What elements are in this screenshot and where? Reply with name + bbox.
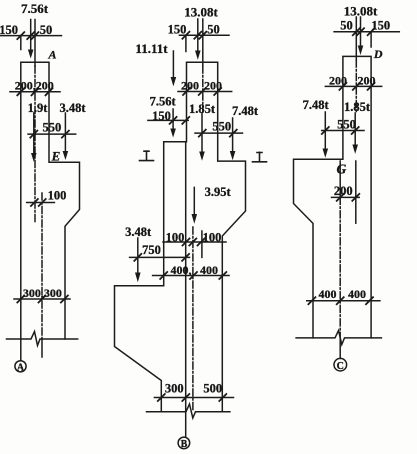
svg-text:3.95t: 3.95t: [205, 185, 232, 199]
svg-text:13.08t: 13.08t: [344, 3, 378, 18]
axis extension to bubble A: [20, 339, 22, 361]
svg-text:300,300: 300,300: [23, 286, 62, 300]
svg-text:500: 500: [203, 381, 222, 395]
crane load arrow 1.9t column A: [31, 113, 37, 162]
svg-text:200: 200: [358, 73, 376, 87]
svg-text:50: 50: [207, 23, 220, 37]
column C lower centerline: [339, 161, 341, 358]
svg-text:200: 200: [204, 78, 222, 92]
svg-text:B: B: [181, 439, 188, 450]
load arrow 3.95t: [192, 187, 198, 223]
load arrow 13.08t column B: [195, 19, 201, 60]
svg-text:150: 150: [168, 23, 187, 37]
break line column C: [296, 331, 381, 345]
svg-text:400: 400: [319, 287, 337, 301]
column B lower centerline: [192, 227, 194, 411]
svg-text:1.85t: 1.85t: [344, 100, 371, 114]
dimension line 200,200 column B: [178, 88, 232, 95]
dimension line 150/50 column A: [0, 32, 62, 49]
load arrow 7.56t column B: [170, 109, 176, 138]
dimension line 550 column C: [322, 127, 364, 134]
crane arrow 1.85t column B: [199, 113, 205, 161]
column C outline: [294, 56, 372, 338]
svg-text:7.48t: 7.48t: [303, 98, 330, 112]
dimension line 150/50 column B: [179, 32, 229, 52]
svg-text:C: C: [337, 361, 344, 372]
column B upper centerline: [201, 19, 204, 257]
svg-text:11.11t: 11.11t: [135, 41, 168, 56]
load arrow 3.48t column B: [135, 238, 141, 282]
dimension line 100,100 column B: [163, 239, 226, 246]
dimension line 200,200 column A: [10, 88, 60, 95]
dimension line 550 column A: [28, 131, 76, 138]
svg-text:300: 300: [165, 381, 184, 395]
dimension line 300,300 column A: [14, 296, 70, 303]
dimension line 200,200 column C: [325, 83, 381, 90]
dimension line 750: [130, 254, 190, 261]
svg-text:50: 50: [340, 18, 353, 32]
column B axis line: [185, 142, 187, 437]
svg-text:150: 150: [152, 109, 171, 123]
svg-text:100: 100: [203, 230, 222, 244]
crane arrow 7.48t column B: [230, 118, 236, 160]
column A outline: [21, 62, 80, 339]
svg-text:7.56t: 7.56t: [150, 94, 177, 108]
svg-text:200: 200: [334, 184, 353, 198]
svg-text:200: 200: [329, 73, 347, 87]
svg-text:150: 150: [371, 18, 390, 32]
svg-text:400: 400: [200, 263, 218, 277]
svg-text:550: 550: [212, 119, 231, 133]
axis bubble B: [178, 437, 190, 449]
dimension line 50/150 column C: [334, 28, 399, 47]
svg-text:400,: 400,: [171, 263, 192, 277]
svg-text:1.85t: 1.85t: [189, 102, 216, 116]
column B outline: [115, 62, 246, 412]
column A lower centerline: [41, 193, 43, 357]
crane arrow 1.85t column C: [352, 113, 358, 154]
svg-text:13.08t: 13.08t: [184, 4, 218, 19]
dimension line 550 column B: [195, 130, 243, 137]
svg-text:7.48t: 7.48t: [232, 104, 259, 118]
svg-text:550: 550: [337, 117, 356, 131]
section mark I right: [253, 152, 267, 162]
svg-text:D: D: [373, 47, 383, 61]
svg-text:G: G: [337, 161, 347, 176]
svg-text:150: 150: [0, 23, 18, 37]
dimension line 100 column A: [27, 199, 55, 206]
svg-text:200: 200: [181, 78, 199, 92]
axis bubble A: [15, 361, 26, 372]
svg-text:3.48t: 3.48t: [125, 225, 152, 239]
load arrow 11.11t: [171, 51, 177, 86]
crane arrow 7.48t column C: [323, 112, 329, 158]
break line column A: [7, 332, 78, 346]
svg-text:A: A: [17, 363, 25, 374]
axis bubble C: [334, 358, 347, 371]
svg-text:750: 750: [142, 243, 161, 257]
load arrow 7.56t on column A: [28, 20, 34, 59]
svg-text:100: 100: [48, 188, 67, 202]
svg-text:200,200: 200,200: [15, 78, 54, 92]
svg-text:100: 100: [166, 230, 185, 244]
dimension line 400,400 column B: [153, 272, 229, 279]
svg-text:3.48t: 3.48t: [59, 101, 86, 115]
svg-text:A: A: [47, 48, 56, 62]
section mark I left: [140, 151, 154, 161]
svg-text:550: 550: [43, 120, 62, 134]
break line column B: [147, 404, 230, 418]
column C upper centerline: [355, 17, 358, 223]
dimension line 150 column B mid: [148, 117, 189, 124]
svg-text:50: 50: [40, 23, 53, 37]
svg-text:400: 400: [348, 287, 366, 301]
column A upper centerline: [34, 20, 36, 224]
crane load arrow 3.48t column A: [63, 113, 69, 160]
load arrow 13.08t column C: [358, 17, 364, 55]
dimension line 200 column C mid: [332, 194, 360, 201]
dimension line 400,400 column C: [307, 297, 380, 304]
svg-text:E: E: [51, 149, 61, 164]
svg-text:7.56t: 7.56t: [21, 1, 49, 16]
dimension line 300/500 column B: [154, 394, 233, 401]
svg-text:1.9t: 1.9t: [28, 101, 49, 115]
